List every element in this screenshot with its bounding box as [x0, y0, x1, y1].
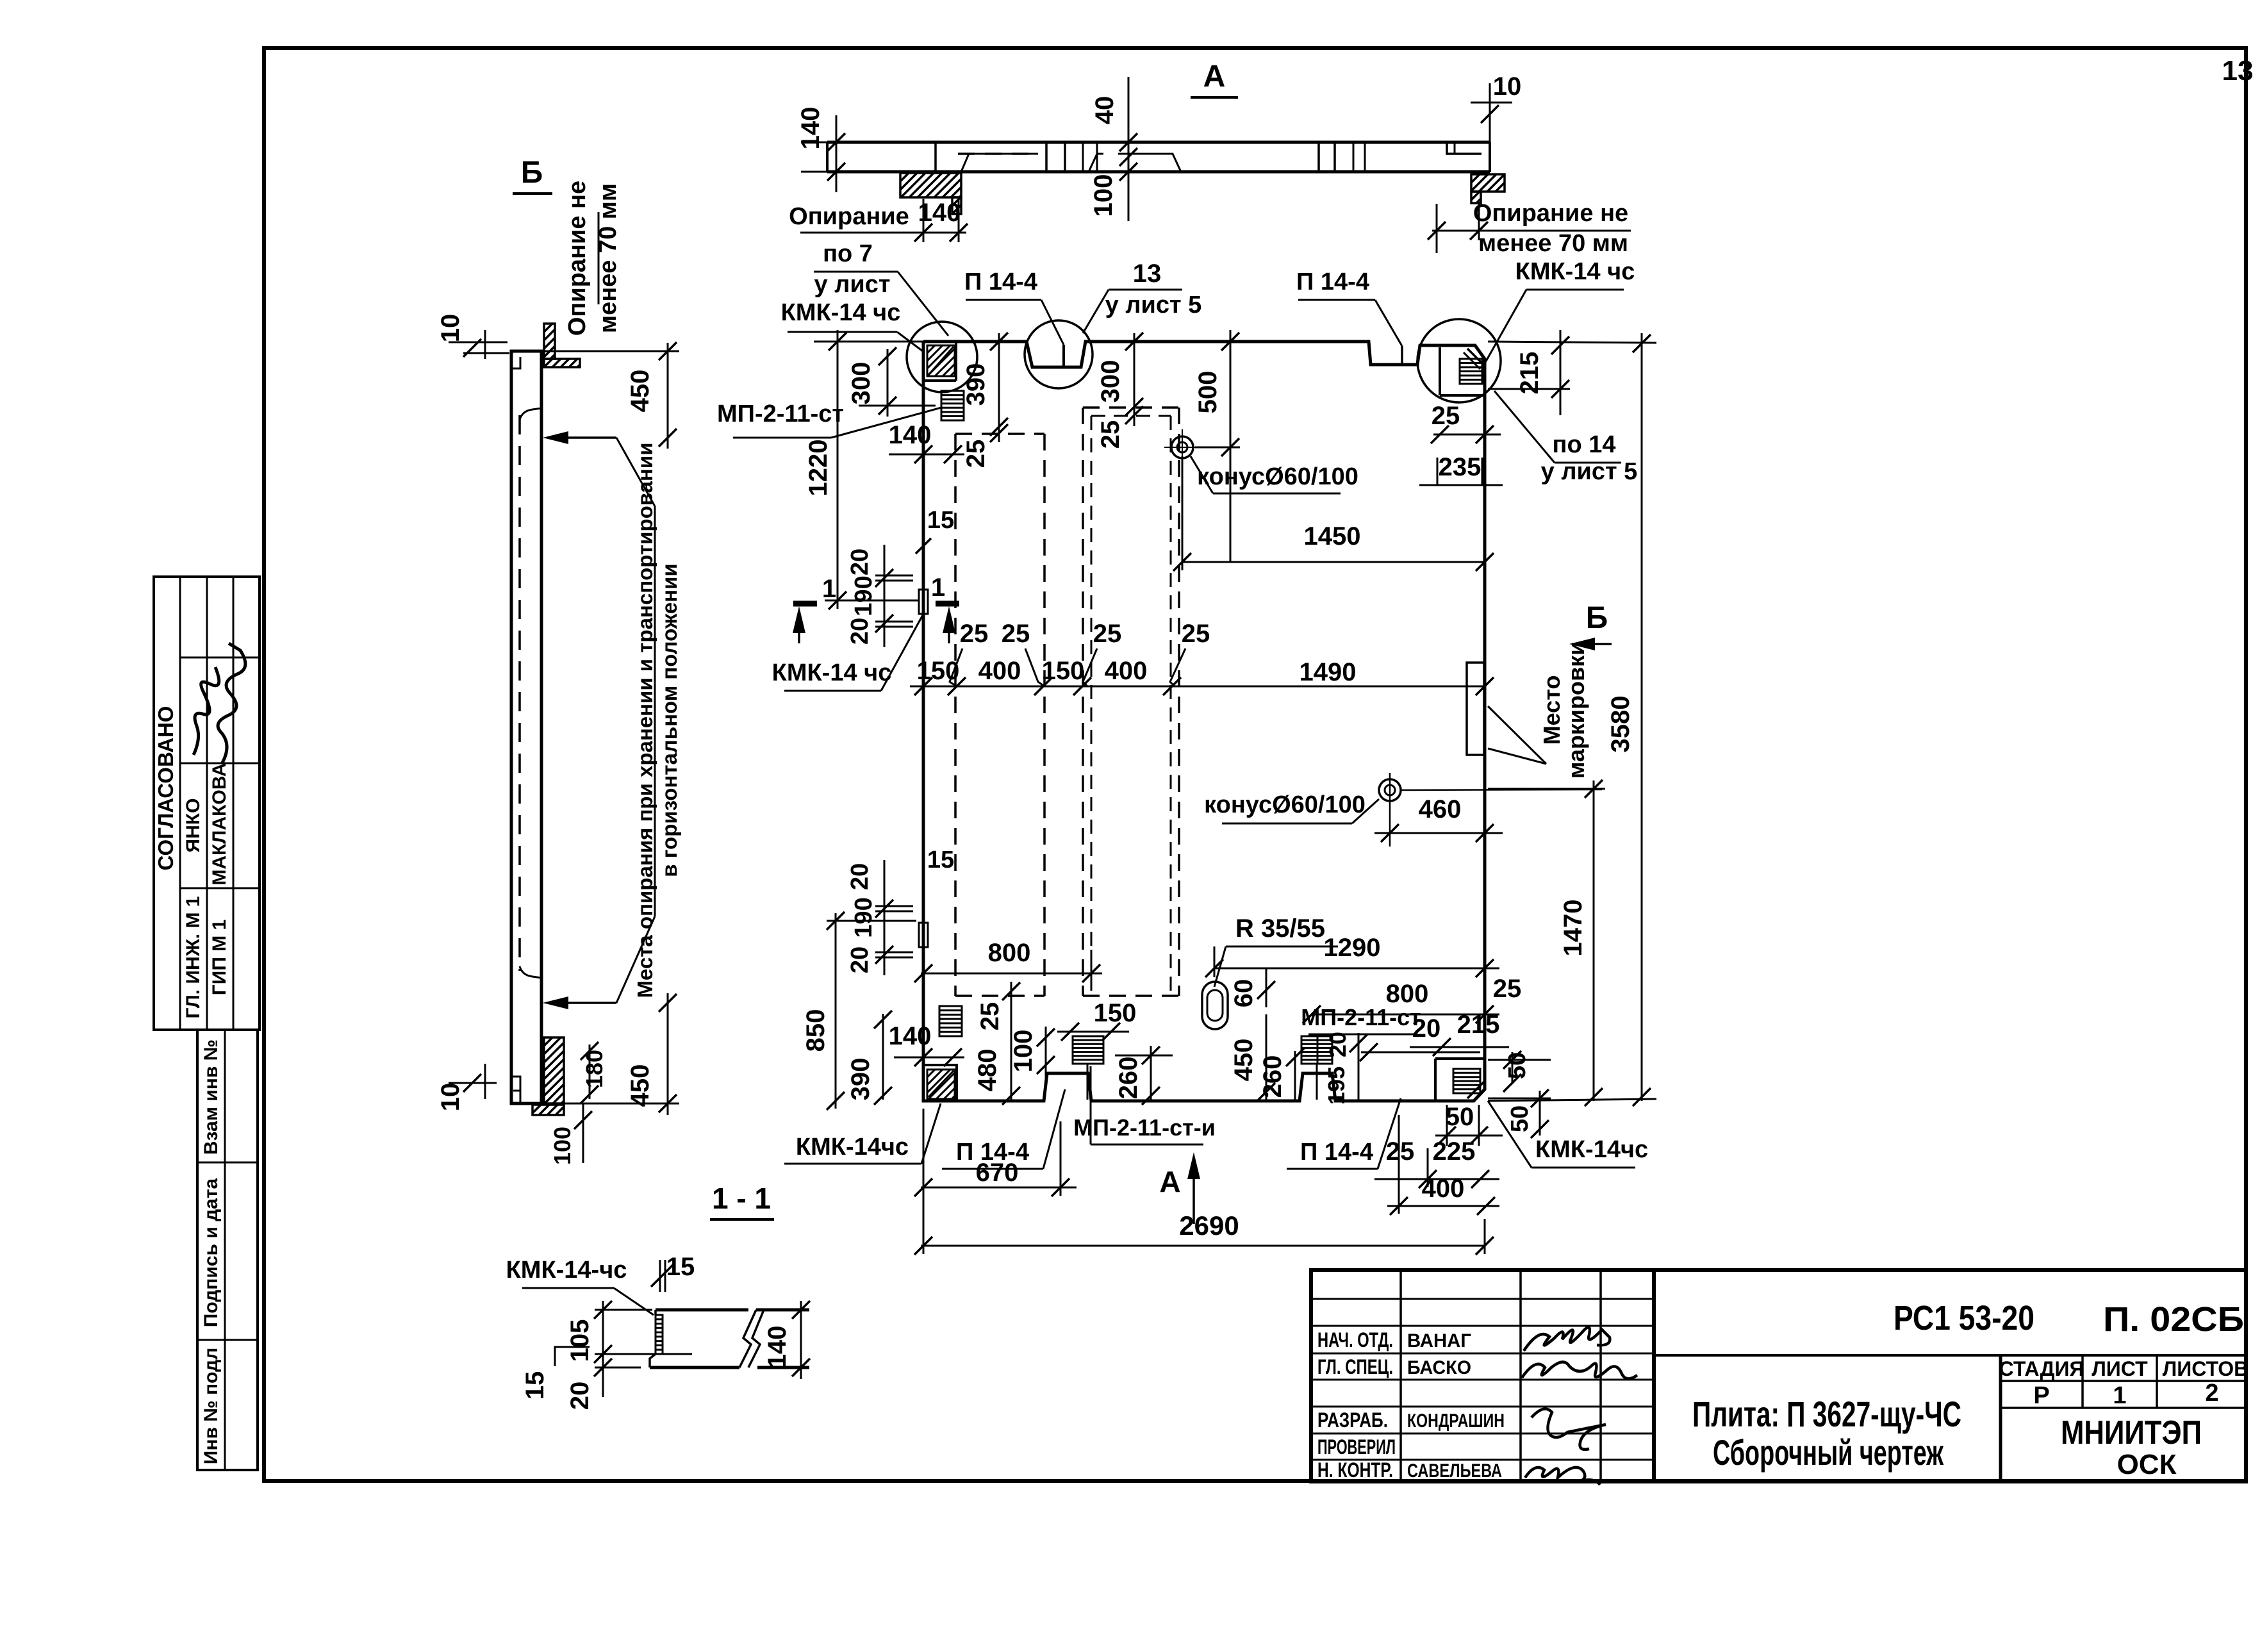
svg-text:Р: Р	[2033, 1382, 2049, 1409]
svg-text:ГЛ. СПЕЦ.: ГЛ. СПЕЦ.	[1317, 1355, 1393, 1378]
svg-text:20: 20	[846, 618, 873, 645]
leader П14-4 into notch	[1062, 345, 1065, 366]
svg-text:1: 1	[822, 575, 836, 603]
svg-text:480: 480	[973, 1049, 1002, 1092]
section Б slab end details	[511, 357, 520, 368]
svg-text:390: 390	[962, 363, 990, 406]
svg-text:ГИП М 1: ГИП М 1	[209, 920, 230, 995]
svg-text:25: 25	[1386, 1137, 1415, 1166]
svg-text:КМК-14чс: КМК-14чс	[1535, 1136, 1648, 1163]
svg-text:1450: 1450	[1304, 522, 1361, 550]
svg-text:195: 195	[1323, 1066, 1349, 1105]
svg-text:у лист 5: у лист 5	[1541, 458, 1638, 485]
svg-text:П. 02СБ: П. 02СБ	[2103, 1300, 2244, 1339]
embed МП-2-11-ст bottom-center	[1073, 1036, 1103, 1064]
svg-text:260: 260	[1114, 1057, 1143, 1100]
svg-text:300: 300	[1096, 360, 1125, 403]
svg-text:3580: 3580	[1606, 696, 1635, 753]
lifting strand stubs on left edge	[919, 590, 928, 614]
svg-text:100: 100	[1009, 1030, 1037, 1073]
detail circle КМК top-left	[907, 322, 977, 392]
svg-text:конусØ60/100: конусØ60/100	[1204, 791, 1366, 818]
svg-text:Места опирания при хранении и: Места опирания при хранении и транспорти…	[633, 442, 657, 998]
svg-text:13: 13	[2222, 55, 2253, 87]
svg-text:БАСКО: БАСКО	[1407, 1357, 1471, 1378]
svg-text:2690: 2690	[1179, 1210, 1239, 1241]
svg-text:ГЛ. ИНЖ. М 1: ГЛ. ИНЖ. М 1	[183, 896, 204, 1018]
approval stamp table (left margin)	[154, 577, 260, 1030]
svg-text:25: 25	[1093, 620, 1122, 648]
конус 60/100 bottom	[1379, 779, 1401, 801]
svg-text:у лист: у лист	[814, 271, 891, 298]
svg-text:450: 450	[626, 370, 654, 413]
svg-text:450: 450	[626, 1064, 654, 1107]
svg-text:215: 215	[1515, 352, 1544, 395]
svg-text:КМК-14чс: КМК-14чс	[796, 1134, 909, 1161]
stamp signature 1	[194, 667, 219, 755]
section Б slab dashed strand line	[518, 415, 521, 971]
svg-text:МАКЛАКОВА: МАКЛАКОВА	[209, 763, 230, 885]
svg-text:1470: 1470	[1559, 900, 1587, 957]
svg-text:20: 20	[846, 946, 873, 973]
svg-text:1: 1	[2113, 1382, 2126, 1409]
svg-text:25: 25	[962, 440, 990, 468]
svg-text:140: 140	[889, 421, 932, 449]
support arrow top (Б)	[543, 431, 568, 444]
svg-text:2: 2	[2205, 1380, 2218, 1407]
embed КМК-14чс top-right hatched	[1439, 347, 1441, 395]
svg-text:150: 150	[1094, 999, 1137, 1027]
svg-text:по 14: по 14	[1553, 431, 1616, 458]
svg-text:50: 50	[1446, 1103, 1474, 1131]
svg-text:10: 10	[436, 1083, 465, 1112]
embed МП-2-11-ст bottom-left	[939, 1006, 962, 1036]
svg-text:1490: 1490	[1300, 658, 1357, 686]
svg-text:190: 190	[850, 575, 877, 616]
svg-text:20: 20	[1412, 1014, 1441, 1043]
svg-text:менее 70 мм: менее 70 мм	[595, 183, 622, 333]
svg-text:1290: 1290	[1324, 934, 1381, 962]
detail circle КМК top-right	[1417, 319, 1501, 402]
svg-text:105: 105	[566, 1319, 594, 1362]
signature КОНДРАШИН	[1531, 1409, 1606, 1450]
svg-text:Опирание не: Опирание не	[1473, 200, 1628, 227]
svg-text:КМК-14 чс: КМК-14 чс	[1515, 258, 1635, 285]
svg-text:ВАНАГ: ВАНАГ	[1407, 1330, 1471, 1351]
svg-text:60: 60	[1230, 979, 1258, 1008]
svg-text:А: А	[1159, 1165, 1180, 1198]
svg-text:П 14-4: П 14-4	[964, 268, 1037, 295]
embed КМК-14чс bottom-left hatched square	[955, 1064, 958, 1100]
stage/sheet table	[1999, 1355, 2002, 1482]
svg-text:25: 25	[976, 1002, 1004, 1031]
embed МП-2-11-ст bottom-right	[1301, 1036, 1332, 1064]
svg-text:460: 460	[1419, 795, 1462, 823]
section A internal joints	[934, 144, 937, 172]
svg-text:МП-2-11-ст-и: МП-2-11-ст-и	[1073, 1114, 1216, 1141]
svg-text:215: 215	[1457, 1011, 1500, 1039]
svg-text:маркировки: маркировки	[1563, 641, 1589, 779]
svg-text:Б: Б	[1586, 601, 1608, 635]
svg-text:20: 20	[566, 1382, 594, 1410]
signature САВЕЛЬЕВА	[1525, 1467, 1600, 1485]
section 1-1 slab piece	[656, 1309, 748, 1312]
svg-text:Взам инв №: Взам инв №	[201, 1039, 222, 1155]
section Б slab outline	[511, 351, 541, 1103]
embed КМК-14чс bottom-right hatched	[1434, 1059, 1437, 1100]
svg-text:Опирание: Опирание	[789, 203, 909, 230]
svg-text:10: 10	[1493, 72, 1522, 101]
svg-text:400: 400	[1422, 1175, 1465, 1203]
svg-text:Плита: П 3627-щу-ЧС: Плита: П 3627-щу-ЧС	[1692, 1394, 1961, 1434]
svg-text:П 14-4: П 14-4	[1300, 1139, 1373, 1166]
svg-text:1 - 1: 1 - 1	[712, 1182, 771, 1215]
svg-text:140: 140	[918, 199, 961, 227]
plan outline of slab П3627	[923, 342, 1485, 1101]
svg-text:190: 190	[850, 897, 877, 938]
embed КМК-14чс top-left hatched square	[955, 343, 957, 381]
svg-text:РАЗРАБ.: РАЗРАБ.	[1317, 1408, 1388, 1432]
svg-text:15: 15	[521, 1371, 549, 1400]
svg-text:Место: Место	[1539, 675, 1565, 745]
svg-text:у лист 5: у лист 5	[1105, 292, 1202, 318]
svg-text:260: 260	[1259, 1055, 1287, 1098]
svg-text:МНИИТЭП: МНИИТЭП	[2061, 1414, 2202, 1451]
svg-text:А: А	[1203, 60, 1226, 94]
svg-text:25: 25	[1432, 402, 1460, 430]
конус 60/100 top	[1171, 436, 1193, 458]
svg-text:НАЧ. ОТД.: НАЧ. ОТД.	[1317, 1328, 1393, 1351]
embed МП-2-11-ст top-left	[941, 391, 964, 420]
svg-text:15: 15	[927, 847, 954, 873]
svg-text:МП-2-11-ст: МП-2-11-ст	[717, 401, 844, 427]
svg-text:1: 1	[931, 574, 945, 602]
svg-text:235: 235	[1439, 453, 1481, 481]
svg-text:МП-2-11-ст: МП-2-11-ст	[1301, 1004, 1421, 1030]
section A slab outline	[827, 141, 1490, 144]
svg-text:40: 40	[1091, 96, 1119, 125]
svg-text:500: 500	[1194, 371, 1222, 414]
svg-text:20: 20	[846, 549, 873, 575]
svg-text:25: 25	[1493, 975, 1522, 1003]
svg-text:в горизонтальном положении: в горизонтальном положении	[657, 563, 681, 877]
svg-text:по 7: по 7	[823, 240, 873, 267]
svg-text:САВЕЛЬЕВА: САВЕЛЬЕВА	[1407, 1460, 1502, 1482]
svg-text:50: 50	[1506, 1105, 1533, 1132]
svg-text:400: 400	[978, 657, 1021, 685]
svg-text:10: 10	[436, 314, 465, 343]
title block left table	[1399, 1270, 1402, 1482]
svg-text:Опирание не: Опирание не	[564, 181, 591, 336]
svg-text:25: 25	[1096, 420, 1125, 449]
svg-text:390: 390	[846, 1058, 875, 1101]
svg-text:Инв № подл: Инв № подл	[201, 1348, 222, 1464]
svg-text:15: 15	[927, 507, 954, 534]
stamp signature 2	[218, 643, 245, 764]
svg-text:РС1 53-20: РС1 53-20	[1894, 1299, 2034, 1337]
channel B dashed void double lines	[1083, 406, 1179, 409]
svg-text:13: 13	[1133, 260, 1162, 288]
support arrow bottom (Б)	[543, 996, 568, 1009]
svg-text:ЛИСТ: ЛИСТ	[2092, 1357, 2148, 1380]
svg-text:20: 20	[846, 863, 873, 890]
svg-text:140: 140	[763, 1326, 791, 1369]
svg-text:450: 450	[1230, 1039, 1258, 1082]
drawing frame border	[264, 48, 2246, 1481]
svg-text:140: 140	[889, 1022, 932, 1050]
svg-text:20: 20	[1325, 1032, 1351, 1057]
handle hole oval R35/55	[1202, 982, 1228, 1029]
svg-text:Н. КОНТР.: Н. КОНТР.	[1317, 1458, 1393, 1482]
svg-text:КОНДРАШИН: КОНДРАШИН	[1407, 1410, 1505, 1432]
место маркировки rectangle	[1467, 663, 1484, 755]
signature БАСКО	[1522, 1362, 1637, 1378]
svg-text:25: 25	[960, 620, 989, 648]
svg-text:800: 800	[988, 939, 1031, 967]
svg-text:ЛИСТОВ: ЛИСТОВ	[2163, 1357, 2249, 1380]
svg-text:СОГЛАСОВАНО: СОГЛАСОВАНО	[154, 706, 177, 871]
document columns strip Взам инв № / Подпись и дата / Инв № подл	[197, 1030, 258, 1470]
svg-text:150: 150	[917, 657, 960, 685]
svg-text:400: 400	[1105, 657, 1148, 685]
svg-text:300: 300	[847, 362, 875, 405]
svg-text:25: 25	[1182, 620, 1210, 648]
channel A dashed void	[955, 433, 1044, 435]
signature ВАНАГ	[1524, 1327, 1610, 1351]
svg-text:R 35/55: R 35/55	[1235, 914, 1325, 943]
svg-text:Сборочный чертеж: Сборочный чертеж	[1713, 1432, 1944, 1473]
svg-text:конусØ60/100: конусØ60/100	[1197, 463, 1358, 490]
svg-text:менее 70 мм: менее 70 мм	[1478, 230, 1628, 257]
title block outline	[1311, 1270, 2246, 1482]
svg-text:Б: Б	[521, 156, 543, 190]
bracket Места опирания	[616, 438, 655, 506]
svg-text:П 14-4: П 14-4	[1296, 268, 1369, 295]
svg-text:ПРОВЕРИЛ: ПРОВЕРИЛ	[1317, 1435, 1396, 1458]
svg-text:ЯНКО: ЯНКО	[183, 798, 204, 853]
svg-text:КМК-14 чс: КМК-14 чс	[781, 299, 901, 326]
svg-text:670: 670	[976, 1159, 1019, 1187]
svg-text:КМК-14 чс: КМК-14 чс	[772, 659, 892, 686]
svg-text:КМК-14-чс: КМК-14-чс	[506, 1257, 627, 1284]
detail circle П14-4 top	[1025, 320, 1093, 388]
svg-text:100: 100	[549, 1127, 575, 1165]
label Опирание не менее 70 мм (Б)	[598, 212, 600, 304]
svg-text:100: 100	[1089, 174, 1118, 217]
svg-text:СТАДИЯ: СТАДИЯ	[1999, 1357, 2084, 1380]
svg-text:1220: 1220	[804, 440, 832, 497]
svg-text:850: 850	[802, 1009, 830, 1052]
svg-text:25: 25	[1002, 620, 1030, 648]
svg-text:Подпись и дата: Подпись и дата	[201, 1178, 222, 1327]
svg-text:225: 225	[1433, 1137, 1476, 1166]
svg-text:ОСК: ОСК	[2117, 1449, 2177, 1480]
